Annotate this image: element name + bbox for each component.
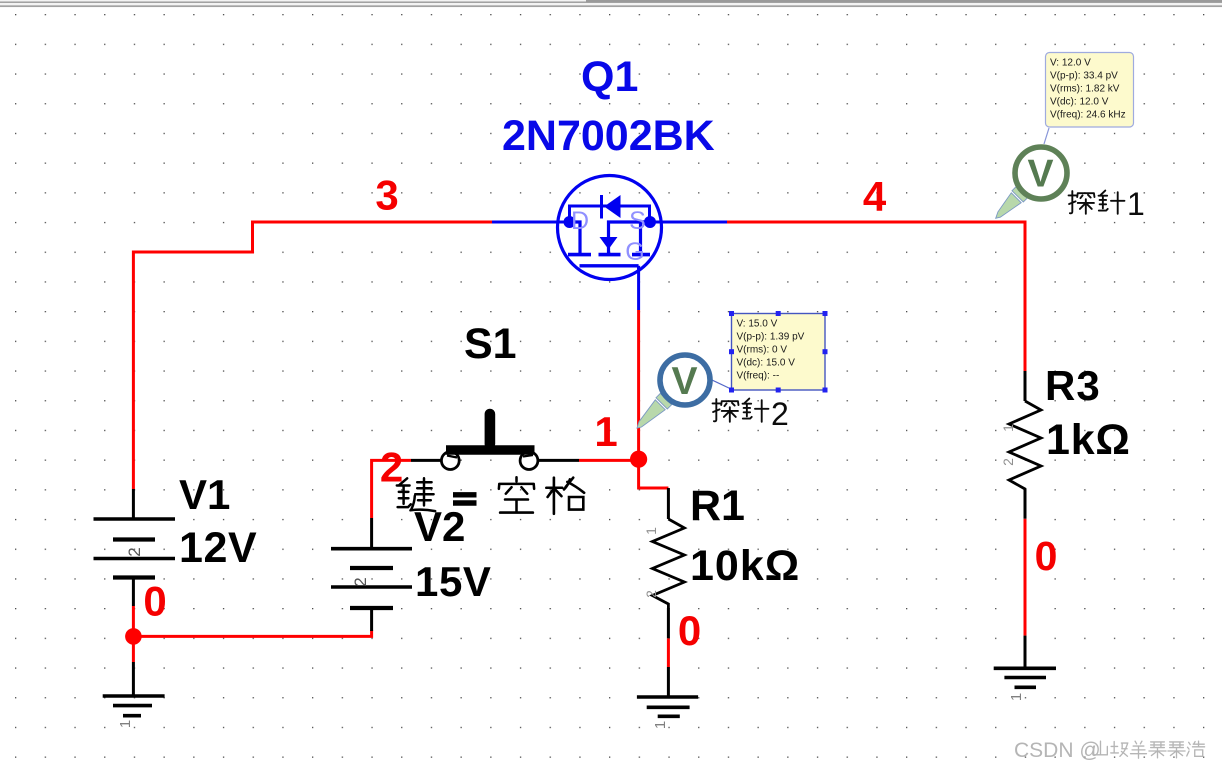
svg-text:V: 15.0 V: V: 15.0 V xyxy=(737,319,778,330)
svg-text:15V: 15V xyxy=(415,558,492,605)
svg-text:V(freq): --: V(freq): -- xyxy=(737,371,780,382)
svg-text:1: 1 xyxy=(643,527,659,535)
wire net1 switch to junction xyxy=(579,459,640,462)
probe1 leader line xyxy=(1044,128,1049,144)
wire gate blue vertical xyxy=(637,268,640,310)
svg-text:V(p-p): 33.4 pV: V(p-p): 33.4 pV xyxy=(1050,71,1118,82)
wire net3 top red xyxy=(133,222,492,489)
wire net4 red to R3 xyxy=(727,222,1025,371)
svg-text:3: 3 xyxy=(375,172,398,219)
scrollbar strip xyxy=(0,0,1222,8)
probe1 label 探针1 xyxy=(1069,191,1125,214)
svg-text:V(dc): 12.0 V: V(dc): 12.0 V xyxy=(1050,97,1109,108)
svg-text:2: 2 xyxy=(643,590,659,598)
wire net2 switch to V2 xyxy=(372,460,411,518)
svg-text:Q1: Q1 xyxy=(581,53,638,101)
ground GND2 under R1 xyxy=(637,667,698,716)
key legend 键 = 空格 xyxy=(397,477,584,513)
svg-text:G: G xyxy=(625,238,644,266)
svg-text:S1: S1 xyxy=(464,320,517,368)
svg-text:2: 2 xyxy=(351,577,370,586)
svg-text:1: 1 xyxy=(1000,424,1016,432)
svg-text:S: S xyxy=(629,207,646,235)
wire net0 under V1 xyxy=(132,606,135,662)
svg-text:12V: 12V xyxy=(179,524,257,572)
svg-text:1kΩ: 1kΩ xyxy=(1046,416,1131,464)
wire net0 under R1 xyxy=(667,638,670,667)
svg-text:V(freq): 24.6 kHz: V(freq): 24.6 kHz xyxy=(1050,110,1126,121)
svg-text:10kΩ: 10kΩ xyxy=(690,542,800,590)
probe2 voltage probe icon xyxy=(637,355,710,428)
svg-text:0: 0 xyxy=(143,578,166,625)
battery V2 xyxy=(331,518,412,631)
svg-text:1: 1 xyxy=(652,721,669,729)
svg-text:0: 0 xyxy=(1035,533,1058,579)
svg-text:1: 1 xyxy=(594,408,617,455)
svg-text:R3: R3 xyxy=(1045,362,1101,409)
Q1 pin dots xyxy=(564,216,576,228)
svg-text:2: 2 xyxy=(1000,458,1016,466)
wire net1 red vertical xyxy=(639,310,669,488)
svg-text:1: 1 xyxy=(117,720,134,728)
probe2 leader line xyxy=(712,380,731,389)
junction node1 dot xyxy=(630,451,647,468)
svg-text:V(p-p): 1.39 pV: V(p-p): 1.39 pV xyxy=(737,332,805,343)
MOSFET Q1 symbol xyxy=(558,176,662,280)
probe2 label 探针2 xyxy=(713,399,769,422)
wire net0 under R3 xyxy=(1024,519,1027,636)
svg-text:V(rms): 0 V: V(rms): 0 V xyxy=(737,345,788,356)
wire net3 blue segment at drain xyxy=(492,221,564,224)
svg-text:V: V xyxy=(671,360,697,403)
svg-text:2: 2 xyxy=(125,547,144,556)
svg-text:R1: R1 xyxy=(690,482,745,530)
svg-text:2N7002BK: 2N7002BK xyxy=(502,112,715,160)
svg-text:V(rms): 1.82 kV: V(rms): 1.82 kV xyxy=(1050,84,1120,95)
svg-text:2: 2 xyxy=(771,396,789,432)
junction node0 dot xyxy=(125,628,142,645)
ground GND3 under R3 xyxy=(994,636,1056,688)
ground GND1 under V1 xyxy=(103,662,165,716)
wire net0 horizontal V1 to V2 xyxy=(133,630,371,636)
probe1 info box xyxy=(1046,53,1134,128)
resistor R1 xyxy=(652,488,684,638)
svg-text:1: 1 xyxy=(1127,186,1145,222)
svg-text:V(dc): 15.0 V: V(dc): 15.0 V xyxy=(737,358,796,369)
probe1 voltage probe icon xyxy=(996,147,1067,218)
svg-text:V: V xyxy=(1027,153,1053,196)
battery V1 xyxy=(94,489,176,606)
svg-text:V1: V1 xyxy=(179,471,230,518)
probe2 info box selected xyxy=(729,311,828,393)
watermark CSDN xyxy=(1014,739,1205,762)
switch S1 xyxy=(411,414,579,470)
svg-text:D: D xyxy=(571,207,589,235)
svg-text:CSDN @: CSDN @ xyxy=(1014,739,1101,762)
resistor R3 xyxy=(1009,371,1041,519)
svg-text:V: 12.0 V: V: 12.0 V xyxy=(1050,58,1091,69)
wire net4 blue segment at source xyxy=(655,221,727,224)
svg-text:1: 1 xyxy=(1008,693,1025,701)
svg-text:0: 0 xyxy=(678,607,701,654)
svg-text:4: 4 xyxy=(863,173,887,220)
